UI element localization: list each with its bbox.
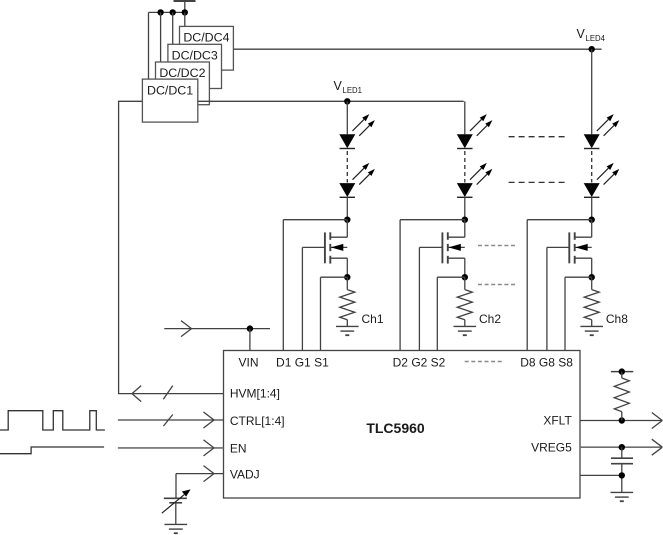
svg-text:D8 G8 S8: D8 G8 S8 (520, 356, 573, 370)
svg-text:CTRL[1:4]: CTRL[1:4] (230, 414, 285, 428)
svg-text:DC/DC4: DC/DC4 (183, 31, 229, 45)
svg-text:XFLT: XFLT (543, 414, 572, 428)
svg-text:TLC5960: TLC5960 (366, 420, 425, 436)
svg-text:VIN: VIN (238, 356, 258, 370)
svg-text:D2 G2 S2: D2 G2 S2 (393, 356, 446, 370)
svg-text:V: V (334, 79, 343, 93)
svg-text:DC/DC3: DC/DC3 (172, 49, 218, 63)
svg-text:VADJ: VADJ (230, 468, 260, 482)
svg-text:HVM[1:4]: HVM[1:4] (230, 387, 280, 401)
svg-text:D1 G1 S1: D1 G1 S1 (276, 356, 329, 370)
svg-text:Ch2: Ch2 (479, 312, 501, 326)
svg-text:Ch1: Ch1 (362, 312, 384, 326)
svg-text:DC/DC1: DC/DC1 (147, 83, 193, 97)
svg-text:LED1: LED1 (343, 86, 363, 95)
svg-text:Ch8: Ch8 (606, 312, 628, 326)
svg-text:VREG5: VREG5 (531, 441, 572, 455)
svg-text:DC/DC2: DC/DC2 (159, 66, 205, 80)
svg-text:EN: EN (230, 441, 247, 455)
svg-text:V: V (577, 27, 586, 41)
svg-text:LED4: LED4 (586, 34, 606, 43)
